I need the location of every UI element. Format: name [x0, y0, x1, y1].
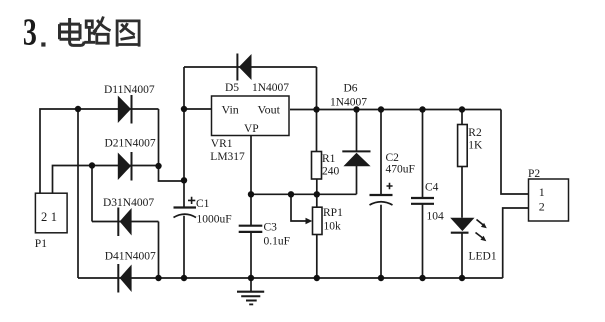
svg-text:LM317: LM317	[210, 151, 245, 163]
svg-text:D11N4007: D11N4007	[104, 84, 155, 96]
svg-text:P2: P2	[528, 168, 540, 180]
svg-text:240: 240	[322, 166, 340, 178]
node rail D6	[353, 106, 359, 112]
svg-text:C3: C3	[264, 222, 278, 234]
wire R1 bottom lead	[316, 179, 318, 194]
node gnd LED	[459, 275, 465, 281]
LED LED1	[450, 218, 497, 263]
wire Vin	[184, 108, 212, 110]
wire main +V vertical	[183, 67, 185, 278]
diode D4	[105, 251, 156, 293]
capacitor C3	[239, 222, 290, 248]
svg-text:Vout: Vout	[258, 103, 281, 117]
capacitor C1	[174, 197, 232, 226]
svg-text:10k: 10k	[324, 221, 342, 233]
svg-text:R1: R1	[322, 153, 336, 165]
svg-text:1N4007: 1N4007	[330, 97, 367, 109]
node gnd RP1	[314, 275, 320, 281]
svg-text:D6: D6	[344, 83, 358, 95]
svg-text:1000uF: 1000uF	[197, 214, 232, 226]
node D2 cathode	[155, 163, 161, 169]
wire D5 top rail	[184, 67, 317, 152]
svg-text:D21N4007: D21N4007	[105, 138, 156, 150]
svg-text:1: 1	[539, 185, 545, 199]
node gnd C4	[419, 275, 425, 281]
svg-text:1: 1	[51, 210, 57, 224]
wire vertical AC2 branch down to D3	[91, 166, 93, 222]
node adj R1	[314, 191, 320, 197]
svg-text:C4: C4	[425, 182, 439, 194]
wire vertical AC1 branch down to D4	[77, 109, 79, 278]
diode D1	[104, 84, 155, 124]
diode D5	[225, 54, 289, 95]
wire R2 LED leads	[461, 110, 463, 279]
svg-text:1K: 1K	[468, 140, 483, 152]
wire C2 leads	[380, 110, 382, 279]
wire AC1 from P1 pin2 up and right to D1	[40, 109, 159, 194]
node rail R2	[459, 106, 465, 112]
node AC1-D4	[75, 106, 81, 112]
svg-text:1N4007: 1N4007	[252, 82, 289, 94]
wire C4 leads	[422, 110, 424, 279]
svg-text:Vin: Vin	[222, 103, 239, 117]
wire VP adjust pin down through C3 to ground	[250, 136, 252, 292]
svg-text:VR1: VR1	[211, 138, 233, 150]
wire D3 row	[92, 222, 159, 279]
diode D2	[105, 138, 156, 181]
regulator U1 LM317	[210, 96, 289, 163]
svg-text:3: 3	[23, 12, 37, 54]
svg-text:RP1: RP1	[323, 207, 343, 219]
wire D1/D2 cathodes join to +V	[159, 109, 185, 181]
node gnd sym	[248, 275, 254, 281]
wire RP1 leads	[316, 194, 318, 278]
node AC2-D3	[89, 162, 95, 168]
svg-text:104: 104	[427, 211, 445, 223]
svg-text:0.1uF: 0.1uF	[264, 236, 291, 248]
wire bottom ground rail	[78, 208, 529, 278]
svg-text:2: 2	[41, 210, 47, 224]
node Vin tap	[181, 106, 187, 112]
node rail C2	[378, 106, 384, 112]
svg-text:LED1: LED1	[469, 251, 497, 263]
node rail R1	[313, 106, 319, 112]
node gnd C2	[378, 275, 384, 281]
wire RP1 wiper	[291, 194, 306, 221]
title char dian	[60, 18, 85, 45]
wire D6 top lead	[356, 110, 358, 152]
ground	[237, 292, 264, 305]
node adj VP	[248, 191, 254, 197]
svg-text:VP: VP	[244, 123, 259, 135]
title char tu	[117, 20, 139, 47]
svg-text:470uF: 470uF	[386, 164, 415, 176]
node gnd D3	[155, 275, 161, 281]
svg-text:R2: R2	[468, 127, 482, 139]
wire Vout output rail	[290, 110, 529, 195]
potentiometer RP1	[306, 207, 344, 235]
wire AC2 from P1 pin1 up and right to D2	[53, 166, 159, 195]
title char lu	[84, 17, 110, 44]
capacitor C4	[411, 182, 444, 223]
node adj wiper	[288, 191, 294, 197]
svg-text:D41N4007: D41N4007	[105, 251, 156, 263]
diode D3	[103, 197, 154, 236]
connector P2	[528, 168, 569, 221]
title 3.	[23, 12, 46, 54]
wire ADJ node row	[251, 166, 357, 194]
resistor R2	[458, 125, 483, 167]
connector P1	[35, 193, 67, 250]
node gnd C1	[181, 275, 187, 281]
svg-text:D31N4007: D31N4007	[103, 197, 154, 209]
svg-text:C1: C1	[196, 198, 210, 210]
capacitor C2	[370, 152, 415, 205]
node rail C4	[419, 106, 425, 112]
svg-text:P1: P1	[35, 238, 47, 250]
svg-text:C2: C2	[386, 152, 400, 164]
resistor R1	[312, 152, 340, 180]
diode D6	[330, 83, 371, 167]
svg-text:2: 2	[539, 200, 545, 214]
svg-text:D5: D5	[225, 82, 239, 94]
node bridge +	[181, 177, 187, 183]
